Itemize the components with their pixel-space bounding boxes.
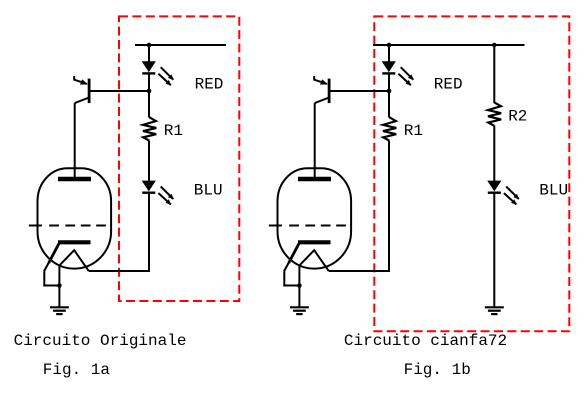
junction: base / RED cathode / R1 node (Fig 1b) (387, 89, 392, 94)
wire: R1 down and left to tube filament (Fig 1b) (329, 141, 389, 271)
svg-text:Circuito Originale: Circuito Originale (14, 332, 187, 350)
svg-text:Circuito cianfa72: Circuito cianfa72 (344, 332, 507, 350)
wire: filament left leg down to ground (Fig 1b) (298, 265, 300, 307)
wire: R1 down to BLU LED anode (148, 141, 150, 181)
tube V1 grid (dashed) (29, 225, 106, 227)
LED D4 BLU (Fig 1b) (487, 181, 519, 205)
resistor R1 (Fig 1b) (383, 117, 396, 140)
junction: base / RED cathode / R1 node (147, 89, 152, 94)
junction: rail to LED branch (147, 43, 152, 48)
tube V2 cathode (284, 242, 330, 285)
wire: rail down to R2 (493, 45, 495, 103)
tube V2 heater filament (299, 250, 328, 271)
tube V1 (triode tube envelope) (38, 168, 112, 268)
tube V1 cathode (44, 242, 90, 285)
wire: top supply rail Fig 1a (135, 44, 226, 46)
tube V2 plate (298, 177, 331, 182)
dashed selection box around Fig 1a LED chain (119, 16, 239, 301)
LED D1 RED (142, 61, 174, 85)
svg-text:BLU: BLU (539, 181, 568, 199)
svg-text:RED: RED (195, 76, 224, 94)
wire: Q1 collector down to tube plate (74, 103, 76, 177)
wire: rail down to RED LED anode (148, 45, 150, 62)
ground R2 branch (485, 307, 504, 314)
wire: top supply rail Fig 1b (373, 44, 525, 46)
svg-text:R2: R2 (508, 107, 527, 125)
wire: transistor base to LED/R1 node (Fig 1b) (330, 90, 389, 92)
svg-text:Fig. 1b: Fig. 1b (404, 361, 471, 379)
svg-text:Fig. 1a: Fig. 1a (43, 361, 111, 379)
junction: rail to R2 branch (492, 43, 497, 48)
junction: cathode/filament ground node (57, 283, 62, 288)
transistor Q2 (PNP) (314, 76, 329, 103)
svg-text:BLU: BLU (194, 182, 223, 200)
LED D3 RED (Fig 1b) (382, 61, 414, 85)
wire: RED LED cathode down to base node and R1 (148, 74, 150, 118)
resistor R2 (488, 102, 501, 125)
wire: R2 down to BLU LED anode (493, 126, 495, 182)
tube V1 plate (58, 177, 91, 182)
wire: transistor base to LED/R1 node (90, 90, 149, 92)
tube V1 heater filament (59, 250, 88, 271)
junction: cathode/filament ground node (Fig 1b) (297, 283, 302, 288)
transistor Q1 (PNP) (74, 76, 89, 103)
wire: rail down to RED LED anode (388, 45, 390, 62)
wire: BLU LED cathode down to ground (493, 193, 495, 307)
wire: Q2 collector down to tube plate (314, 103, 316, 177)
wire: BLU LED cathode down and left to tube filament (89, 193, 149, 271)
LED D2 BLU (Fig 1a) (142, 181, 174, 205)
junction: rail to RED LED branch (387, 43, 392, 48)
ground tube (Fig 1b) (290, 307, 309, 314)
dashed selection box around Fig 1b LED chain (374, 16, 569, 331)
wire: RED LED cathode down to base node and R1 (388, 74, 390, 118)
wire: filament left leg down to ground (58, 265, 60, 307)
tube V2 (triode tube envelope) (278, 168, 352, 268)
svg-text:R1: R1 (404, 122, 423, 140)
ground (Fig 1a) (50, 307, 69, 314)
tube V2 grid (dashed) (269, 225, 346, 227)
svg-text:RED: RED (434, 76, 463, 94)
svg-text:R1: R1 (164, 122, 183, 140)
resistor R1 (Fig 1a) (143, 117, 156, 140)
